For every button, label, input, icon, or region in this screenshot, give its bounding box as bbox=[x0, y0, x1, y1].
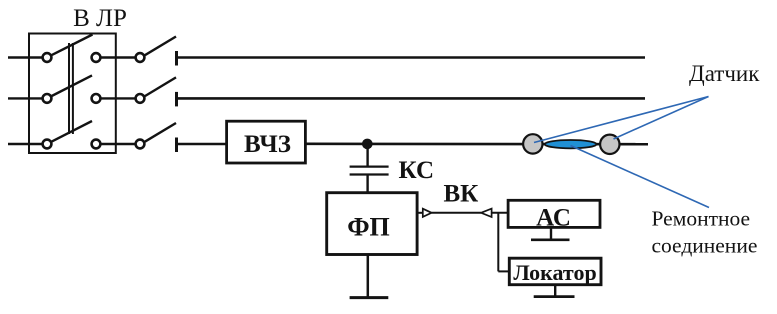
svg-text:КС: КС bbox=[399, 157, 435, 184]
capacitor КС plates bbox=[350, 165, 389, 167]
line switch pole B fixed contact bar bbox=[175, 92, 178, 107]
wire phase C to ВЧЗ bbox=[178, 143, 227, 146]
svg-text:соединение: соединение bbox=[652, 233, 758, 257]
repair connection lens bbox=[545, 140, 597, 148]
pointer line to left sensor bbox=[534, 97, 709, 143]
disconnector box В ЛР bbox=[29, 34, 116, 154]
wire branch down to Локатор bbox=[497, 213, 499, 272]
disconnector pole C fixed contact bbox=[92, 140, 101, 149]
wire between connector halves bbox=[432, 212, 481, 214]
disconnector pole B hinge contact bbox=[43, 94, 52, 103]
sensor circle right bbox=[600, 135, 619, 154]
svg-text:ВЧЗ: ВЧЗ bbox=[244, 131, 291, 158]
wire phase A bus bbox=[178, 56, 645, 59]
wire connector to АС bbox=[492, 212, 509, 214]
disconnector pole A fixed contact bbox=[92, 53, 101, 62]
ground wire under АС bbox=[550, 227, 552, 239]
svg-text:ВК: ВК bbox=[444, 181, 479, 208]
line switch pole C hinge contact bbox=[136, 140, 145, 149]
ground wire under Локатор bbox=[554, 285, 556, 297]
wire phase B bus bbox=[178, 97, 645, 100]
connector arrow left (ВК socket) bbox=[481, 209, 492, 217]
disconnector pole A blade bbox=[52, 35, 93, 56]
block АС bbox=[508, 200, 600, 227]
line switch pole A blade bbox=[145, 37, 176, 56]
block ВЧЗ (line trap) bbox=[227, 121, 306, 163]
disconnector pole B fixed contact bbox=[92, 94, 101, 103]
wire phase C after ВЧЗ bbox=[305, 143, 648, 146]
line switch pole B blade bbox=[145, 77, 176, 96]
disconnector pole B blade bbox=[52, 75, 92, 96]
disconnector pole C hinge contact bbox=[43, 140, 52, 149]
wire phase A box to switch bbox=[100, 56, 135, 58]
line switch pole A fixed contact bar bbox=[175, 51, 178, 66]
svg-text:АС: АС bbox=[536, 205, 571, 232]
connector arrow right (ВК plug) bbox=[423, 209, 432, 217]
ground symbol under Локатор bbox=[534, 295, 575, 298]
line switch pole B hinge contact bbox=[136, 94, 145, 103]
disconnector pole C blade bbox=[52, 121, 92, 142]
svg-text:Ремонтное: Ремонтное bbox=[652, 207, 751, 231]
disconnector mechanical linkage bbox=[68, 43, 70, 134]
pointer line to right sensor bbox=[614, 97, 709, 140]
capacitor КС stem bottom bbox=[366, 176, 368, 193]
wire phase C lead-in bbox=[8, 143, 43, 145]
svg-text:Датчик: Датчик bbox=[689, 61, 760, 86]
svg-text:Локатор: Локатор bbox=[513, 260, 596, 285]
ground wire under ФП bbox=[367, 255, 370, 298]
ground symbol under АС bbox=[531, 239, 570, 242]
svg-text:В ЛР: В ЛР bbox=[73, 5, 127, 32]
wire phase B lead-in bbox=[8, 97, 43, 99]
pointer line to repair connection bbox=[571, 146, 710, 208]
disconnector pole A hinge contact bbox=[43, 53, 52, 62]
svg-text:ФП: ФП bbox=[347, 213, 390, 242]
ground symbol under ФП bbox=[350, 296, 389, 299]
capacitor КС stem top bbox=[366, 144, 368, 166]
line switch pole A hinge contact bbox=[136, 53, 145, 62]
wire phase A lead-in bbox=[8, 56, 43, 58]
sensor circle left bbox=[523, 134, 542, 153]
wire phase B box to switch bbox=[100, 97, 135, 99]
wire phase C box to switch bbox=[100, 143, 135, 145]
node junction at coupling capacitor bbox=[362, 139, 373, 150]
block ФП (filter) bbox=[327, 193, 417, 255]
line switch pole C blade bbox=[145, 123, 176, 142]
block Локатор bbox=[509, 258, 601, 285]
line switch pole C fixed contact bar bbox=[175, 138, 178, 153]
wire ФП output bbox=[417, 212, 424, 214]
